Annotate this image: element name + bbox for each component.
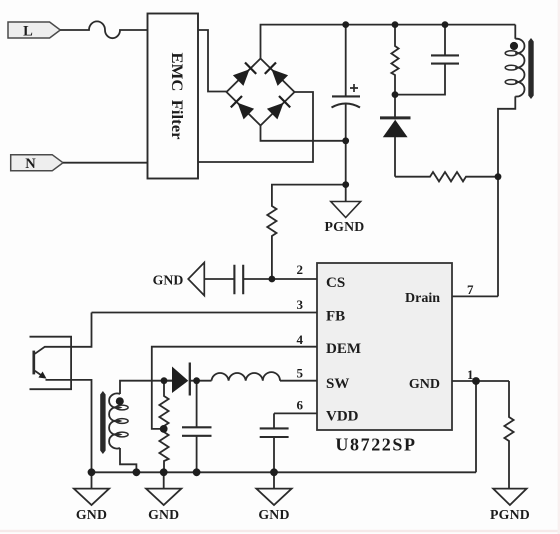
svg-text:SW: SW xyxy=(326,376,349,392)
svg-text:4: 4 xyxy=(297,332,304,347)
svg-text:3: 3 xyxy=(297,297,304,312)
svg-text:GND: GND xyxy=(76,507,107,522)
svg-text:U8722SP: U8722SP xyxy=(335,435,416,455)
svg-text:6: 6 xyxy=(297,398,304,413)
svg-text:1: 1 xyxy=(467,367,474,382)
svg-text:CS: CS xyxy=(326,275,345,291)
svg-text:Drain: Drain xyxy=(405,291,440,306)
svg-text:7: 7 xyxy=(467,282,474,297)
svg-text:PGND: PGND xyxy=(325,219,365,234)
svg-text:5: 5 xyxy=(297,366,304,381)
svg-text:FB: FB xyxy=(326,309,345,325)
svg-text:GND: GND xyxy=(258,507,289,522)
svg-text:N: N xyxy=(25,156,36,172)
svg-text:2: 2 xyxy=(297,262,304,277)
svg-text:PGND: PGND xyxy=(490,507,530,522)
svg-text:DEM: DEM xyxy=(326,341,361,357)
svg-text:L: L xyxy=(23,24,33,40)
svg-text:EMC Filter: EMC Filter xyxy=(168,53,185,140)
svg-text:GND: GND xyxy=(148,507,179,522)
svg-text:VDD: VDD xyxy=(326,409,359,425)
svg-text:GND: GND xyxy=(409,377,440,392)
svg-text:GND: GND xyxy=(153,273,184,288)
